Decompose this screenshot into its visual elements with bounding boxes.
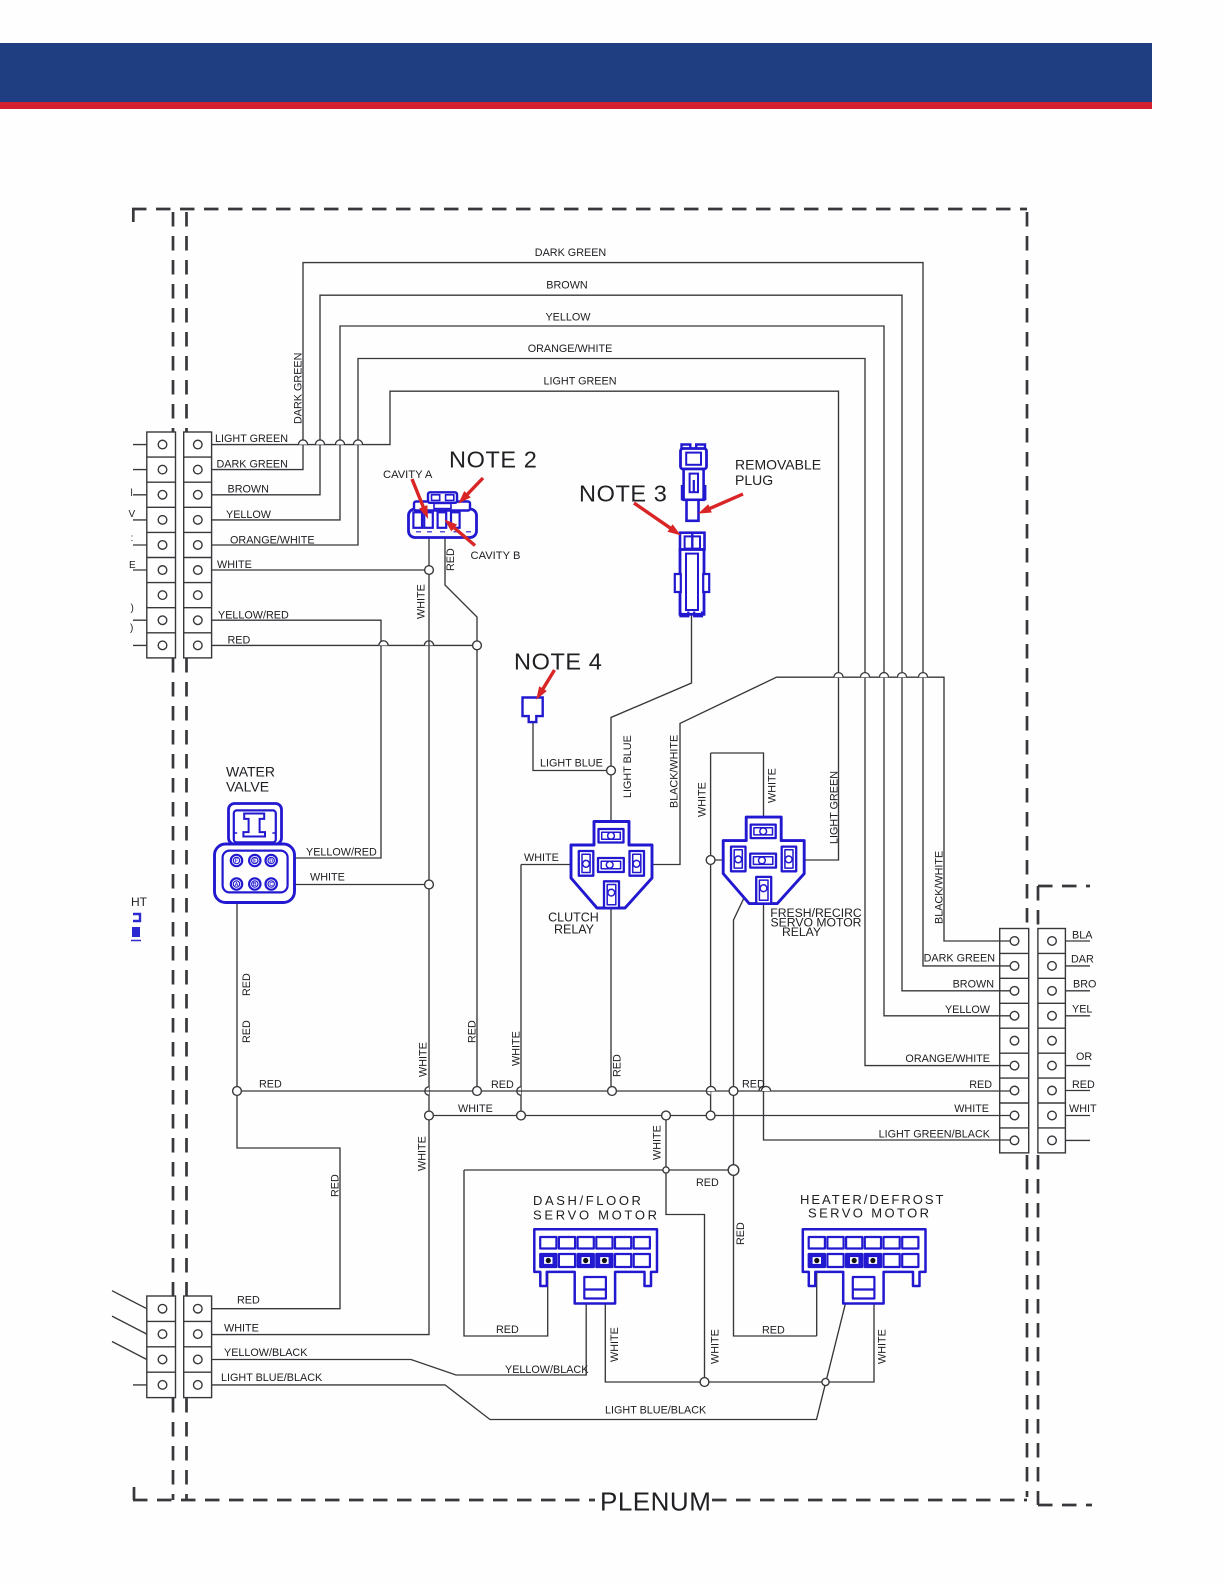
svg-text:BROWN: BROWN (546, 280, 587, 292)
wire WHITE: over to fresh/recirc relay top pin (711, 753, 764, 826)
svg-text:B: B (253, 882, 257, 888)
wire WHITE: drop from clutch relay left-pin feed to WHITE bus (520, 865, 522, 1116)
svg-text:ORANGE/WHITE: ORANGE/WHITE (528, 343, 613, 355)
svg-text:RED: RED (696, 1177, 719, 1189)
junction node: WHITE bus / clutch left-pin drop (517, 1111, 526, 1120)
hop RED row over YELLOW/RED drop (379, 641, 388, 646)
svg-text:LIGHT GREEN: LIGHT GREEN (215, 433, 288, 445)
wire RED: drop to heater/defrost servo pin1 (734, 1170, 817, 1336)
svg-text:BROWN: BROWN (228, 484, 269, 496)
removable plug receptacle (NOTE3 lower blue part) (675, 533, 709, 617)
svg-text:F: F (235, 858, 238, 864)
wire YELLOW/BLACK: J2 row3 to dash/floor servo pin3 (212, 1262, 587, 1375)
junction node: WHITE bottom run / white branch (700, 1378, 709, 1387)
arrow callout to NOTE2 cavity A (412, 479, 428, 518)
plenum boundary: top-left corner stub (132, 209, 135, 222)
hop LIGHT GREEN row over BROWN riser (315, 440, 324, 445)
svg-text:BRO: BRO (1073, 978, 1096, 990)
svg-text:DASH/FLOOR: DASH/FLOOR (533, 1193, 644, 1208)
svg-text:WHITE: WHITE (417, 1136, 429, 1171)
junction node: LIGHT BLUE / NOTE4 lead (607, 766, 616, 775)
svg-text:YELLOW/BLACK: YELLOW/BLACK (505, 1364, 589, 1376)
svg-text:RED: RED (496, 1324, 519, 1336)
junction node: RED row9 / cavity-B drop (473, 641, 482, 650)
svg-text:DARK GREEN: DARK GREEN (217, 458, 288, 470)
junction node: WHITE bottom run / LIGHT BLUE/BLACK diagonal (822, 1378, 829, 1385)
wire LIGHT GREEN/BLACK: fresh/recirc relay bottom pin to J3 row9 (764, 890, 1011, 1140)
svg-text:YELLOW/RED: YELLOW/RED (218, 609, 289, 621)
plenum boundary: right dashed edge (x=1027) (1026, 212, 1029, 1497)
wire RED: clutch relay bottom pin to RED bus (610, 894, 612, 1091)
plenum boundary: bottom-left corner stub (133, 1487, 136, 1500)
svg-text:RED: RED (228, 635, 251, 647)
svg-text:RED: RED (742, 1079, 765, 1091)
junction node: WHITE bus / servo white branch (662, 1111, 671, 1120)
junction node: RED branch / fresh center-pin drop (728, 1165, 739, 1176)
svg-text:ORANGE/WHITE: ORANGE/WHITE (905, 1053, 990, 1065)
arrow callout to NOTE2 cavity B (446, 521, 476, 546)
svg-text:WHITE: WHITE (511, 1031, 523, 1066)
J2 outer-half diagonal stubs (112, 1291, 147, 1385)
wire WHITE: water valve pin C to junction on cavity-A drop (280, 884, 429, 886)
svg-text:BLACK/WHITE: BLACK/WHITE (934, 851, 946, 924)
svg-text:WHITE: WHITE (609, 1327, 621, 1362)
junction node: RED bus / clutch relay bottom pin (608, 1087, 617, 1096)
svg-text:WHIT: WHIT (1069, 1103, 1097, 1115)
svg-text:YELLOW/RED: YELLOW/RED (306, 847, 377, 859)
svg-text:RED: RED (1072, 1079, 1095, 1091)
plenum boundary: bottom dashed edge with PLENUM gap (133, 1499, 1027, 1502)
svg-text:LIGHT BLUE/BLACK: LIGHT BLUE/BLACK (221, 1372, 323, 1384)
connector J1 inner half (top left, inside plenum) (184, 432, 212, 658)
svg-text:V: V (129, 509, 136, 520)
blue hyperlink fragments at page edge (131, 914, 141, 941)
connector J3 inner half (right, inside plenum) (1000, 929, 1029, 1153)
svg-text:YELLOW: YELLOW (545, 312, 591, 324)
junction node: WHITE row6 / cavity-A drop (425, 566, 434, 575)
water valve pin E (249, 855, 260, 866)
svg-text:DAR: DAR (1071, 953, 1094, 965)
svg-text:RED: RED (241, 973, 253, 996)
heater/defrost servo motor connector (blue 12-cavity connector) (803, 1229, 926, 1303)
wire WHITE: bottom run joining both servo pin4 terminals (605, 1262, 874, 1382)
svg-text:RELAY: RELAY (554, 922, 595, 936)
svg-text:WHITE: WHITE (710, 1329, 722, 1364)
NOTE4 terminal (small blue connector) (523, 698, 543, 723)
connector J1 outer half (top left, outside plenum) (147, 432, 176, 658)
hop RED bus over WHITE riser (706, 1086, 715, 1091)
svg-text:LIGHT BLUE: LIGHT BLUE (622, 735, 634, 798)
svg-text::: : (131, 533, 134, 544)
J3 outer-half wire stubs (clipped at page margin) (1065, 941, 1090, 1140)
wire WHITE bus across lower area to J3 row8 (429, 1115, 1010, 1117)
arrow callout from NOTE 2 text (460, 478, 484, 503)
hop BLACK/WHITE over LIGHT GREEN riser (834, 673, 843, 678)
hop BLACK/WHITE over DARK GREEN riser (918, 673, 927, 678)
arrow callout to removable plug (700, 494, 744, 513)
wire WHITE: to fresh/recirc relay left pin (711, 859, 731, 861)
svg-text:E: E (129, 560, 136, 571)
hop WHITE riser over RED bus (706, 1087, 710, 1095)
svg-text:YEL: YEL (1072, 1004, 1092, 1016)
svg-text:BROWN: BROWN (953, 978, 994, 990)
water valve (blue symbol) (215, 804, 295, 903)
svg-text:NOTE 3: NOTE 3 (579, 481, 667, 507)
junction node: white branch crossing red branch (663, 1167, 669, 1173)
svg-text:RED: RED (241, 1020, 253, 1043)
svg-text:DARK GREEN: DARK GREEN (924, 953, 995, 965)
svg-text:WHITE: WHITE (652, 1125, 664, 1160)
plenum boundary: inner-left dashed line (x=186.5) (185, 212, 188, 1500)
connector J3 outer half (right) (1038, 929, 1066, 1153)
svg-text:WHITE: WHITE (524, 852, 559, 864)
wire ORANGE/WHITE net: J1 row5 over top bus to J3 row6 (212, 359, 1010, 1066)
wire RED: horizontal branch feeding dash/floor servo (464, 1169, 734, 1171)
junction node: RED bus / cavity-B drop (473, 1087, 482, 1096)
header blue banner (0, 43, 1152, 102)
svg-text:OR: OR (1076, 1051, 1092, 1063)
svg-text:PLUG: PLUG (735, 472, 773, 488)
wire YELLOW net: J1 row4 over top bus to J3 row4 (212, 326, 1010, 1016)
svg-text:): ) (131, 603, 134, 614)
water valve pin F (231, 855, 242, 866)
svg-text:YELLOW: YELLOW (945, 1004, 991, 1016)
connector NOTE2 (blue 4-cavity connector) (409, 492, 477, 537)
hop LIGHT GREEN/BLACK over RED bus (759, 1086, 768, 1091)
hop WHITE drop over RED bus (425, 1087, 429, 1095)
header red rule (0, 102, 1152, 109)
junction node: RED bus / fresh relay center-pin drop (729, 1087, 738, 1096)
arrow callout from NOTE 4 text (537, 670, 555, 699)
svg-text:): ) (130, 623, 133, 634)
svg-text:E: E (253, 858, 257, 864)
svg-text:A: A (235, 882, 239, 888)
svg-text:RED: RED (735, 1222, 747, 1245)
fresh/recirc servo motor relay connector (blue relay connector) (723, 817, 804, 904)
wire RED: NOTE2 cavity B drop, diagonal, down to RED bus (445, 536, 477, 1091)
svg-text:WHITE: WHITE (416, 584, 428, 619)
wire LIGHT BLUE: removable plug receptacle down to clutch relay top pin (611, 614, 692, 833)
svg-text:YELLOW: YELLOW (226, 509, 272, 521)
svg-text:HT: HT (131, 895, 148, 909)
svg-text:l: l (131, 488, 133, 499)
water valve pin B (249, 878, 260, 889)
removable plug (upper blue part) (681, 445, 707, 521)
svg-text:WHITE: WHITE (458, 1103, 493, 1115)
right inner dashed box (x=1038) top corner (1038, 885, 1090, 888)
hop RED row over WHITE drop (424, 641, 433, 646)
connector J2 outer half (bottom left) (147, 1296, 176, 1398)
svg-text:VALVE: VALVE (226, 779, 269, 795)
hop LIGHT GREEN row over ORANGE/WHITE riser (353, 440, 362, 445)
clutch relay connector (blue relay connector) (571, 822, 652, 909)
hop WHITE drop over RED bus (517, 1087, 521, 1095)
wire RED: water valve pin A down, over to J2 row1 (212, 900, 340, 1309)
wire WHITE: to clutch relay left pin (521, 864, 579, 866)
svg-text:YELLOW/BLACK: YELLOW/BLACK (224, 1347, 308, 1359)
wire LIGHT GREEN net: J1 row1 over top bus to fresh/recirc relay right pin (212, 391, 839, 860)
wire BLACK/WHITE: clutch relay right pin to J3 row1 (643, 677, 1010, 941)
svg-text:REMOVABLE: REMOVABLE (735, 457, 821, 473)
wire WHITE: NOTE2 cavity A drop down to J2 row2 (through junctions) (212, 536, 429, 1335)
svg-text:NOTE 2: NOTE 2 (449, 447, 537, 473)
svg-text:RED: RED (445, 548, 457, 571)
svg-text:DARK GREEN: DARK GREEN (293, 353, 305, 424)
hop BLACK/WHITE over BROWN riser (897, 673, 906, 678)
svg-text:RED: RED (491, 1079, 514, 1091)
svg-text:PLENUM: PLENUM (600, 1487, 711, 1517)
right inner dashed box bottom corner (1038, 1504, 1092, 1507)
svg-text:WHITE: WHITE (224, 1322, 259, 1334)
hop BLACK/WHITE over YELLOW riser (879, 673, 888, 678)
wire DARK GREEN net: J1 row2 up over top bus to J3 row2 (212, 263, 1010, 966)
svg-text:WHITE: WHITE (767, 768, 779, 803)
junction node: WHITE drop / water valve pin C (425, 880, 434, 889)
junction node: WHITE bus / fresh relay riser (706, 1111, 715, 1120)
wire WHITE: riser from WHITE bus feeding fresh/recirc relay (710, 753, 712, 1116)
dash/floor servo motor connector (blue 12-cavity connector) (534, 1229, 657, 1303)
tiny cut-off fragments left margin (129, 488, 137, 634)
svg-text:NOTE 4: NOTE 4 (514, 649, 602, 675)
junction node: WHITE bus / cavity-A drop (425, 1111, 434, 1120)
svg-text:LIGHT GREEN: LIGHT GREEN (829, 771, 841, 844)
svg-text:WHITE: WHITE (418, 1042, 430, 1077)
svg-text:DARK GREEN: DARK GREEN (535, 247, 606, 259)
wire RED bus across lower area to J3 row7 (237, 1090, 1010, 1092)
wire YELLOW/RED: J1 row8 down to water valve pin D (212, 620, 381, 858)
svg-text:WHITE: WHITE (217, 559, 252, 571)
svg-text:RED: RED (259, 1079, 282, 1091)
water valve pin D (266, 855, 277, 866)
svg-text:BLACK/WHITE: BLACK/WHITE (669, 735, 681, 808)
wire LIGHT BLUE/BLACK: J2 row4 to heater/defrost servo pin3 (212, 1262, 856, 1420)
wire RED: fresh/recirc relay center pin down to junction (734, 862, 762, 1170)
svg-text:ORANGE/WHITE: ORANGE/WHITE (230, 534, 315, 546)
svg-text:RED: RED (467, 1020, 479, 1043)
svg-text:C: C (269, 882, 273, 888)
svg-text:CAVITY B: CAVITY B (471, 550, 521, 562)
svg-text:SERVO MOTOR: SERVO MOTOR (533, 1208, 660, 1223)
svg-text:BLA: BLA (1072, 930, 1093, 942)
svg-text:WHITE: WHITE (310, 872, 345, 884)
svg-text:D: D (269, 858, 273, 864)
wire BROWN net: J1 row3 over top bus to J3 row3 (212, 295, 1010, 991)
svg-text:RED: RED (762, 1324, 785, 1336)
hop RED bus over LIGHT GREEN/BLACK drop (761, 1086, 770, 1091)
wire LIGHT BLUE: NOTE4 terminal to junction (533, 720, 607, 771)
plenum boundary: outer dashed box, top edge (132, 208, 1027, 211)
hop LIGHT GREEN row over YELLOW riser (335, 440, 344, 445)
svg-text:RED: RED (612, 1054, 624, 1077)
svg-text:LIGHT GREEN/BLACK: LIGHT GREEN/BLACK (879, 1129, 991, 1141)
svg-text:LIGHT BLUE: LIGHT BLUE (540, 758, 603, 770)
plenum boundary: inner-left dashed line (x=173) (172, 212, 175, 1500)
svg-text:RELAY: RELAY (782, 925, 821, 939)
svg-text:RED: RED (969, 1079, 992, 1091)
wire WHITE: branch from WHITE bus down to servo motor white feed (666, 1116, 705, 1383)
svg-text:RED: RED (330, 1174, 342, 1197)
svg-text:LIGHT GREEN: LIGHT GREEN (544, 376, 617, 388)
svg-text:WHITE: WHITE (697, 782, 709, 817)
wire RED: J1 row9 to junction with cavity-B drop (212, 644, 477, 646)
hop LIGHT GREEN row over DARK GREEN riser (298, 440, 307, 445)
svg-text:CAVITY A: CAVITY A (383, 469, 433, 481)
svg-text:SERVO MOTOR: SERVO MOTOR (808, 1206, 931, 1221)
wire RED: dash/floor servo pin1 drop and riser (464, 1170, 548, 1336)
svg-text:WHITE: WHITE (877, 1329, 889, 1364)
junction node: RED bus left end / water valve pin A drop (233, 1087, 242, 1096)
water valve pin C (266, 878, 277, 889)
J1 outer-half wire stubs to page edge (133, 445, 147, 646)
connector J2 inner half (bottom left) (184, 1296, 212, 1398)
hop BLACK/WHITE over ORANGE/WHITE riser (860, 673, 869, 678)
arrow callout from NOTE 3 text (634, 503, 680, 535)
svg-text:WHITE: WHITE (954, 1103, 989, 1115)
svg-text:WATER: WATER (226, 764, 275, 780)
svg-text:RED: RED (237, 1295, 260, 1307)
wire WHITE: J1 row6 to junction with cavity-A drop (212, 569, 429, 571)
svg-text:LIGHT BLUE/BLACK: LIGHT BLUE/BLACK (605, 1405, 707, 1417)
junction node: WHITE riser / relay left pin feed (706, 856, 715, 865)
water valve pin A (231, 878, 242, 889)
